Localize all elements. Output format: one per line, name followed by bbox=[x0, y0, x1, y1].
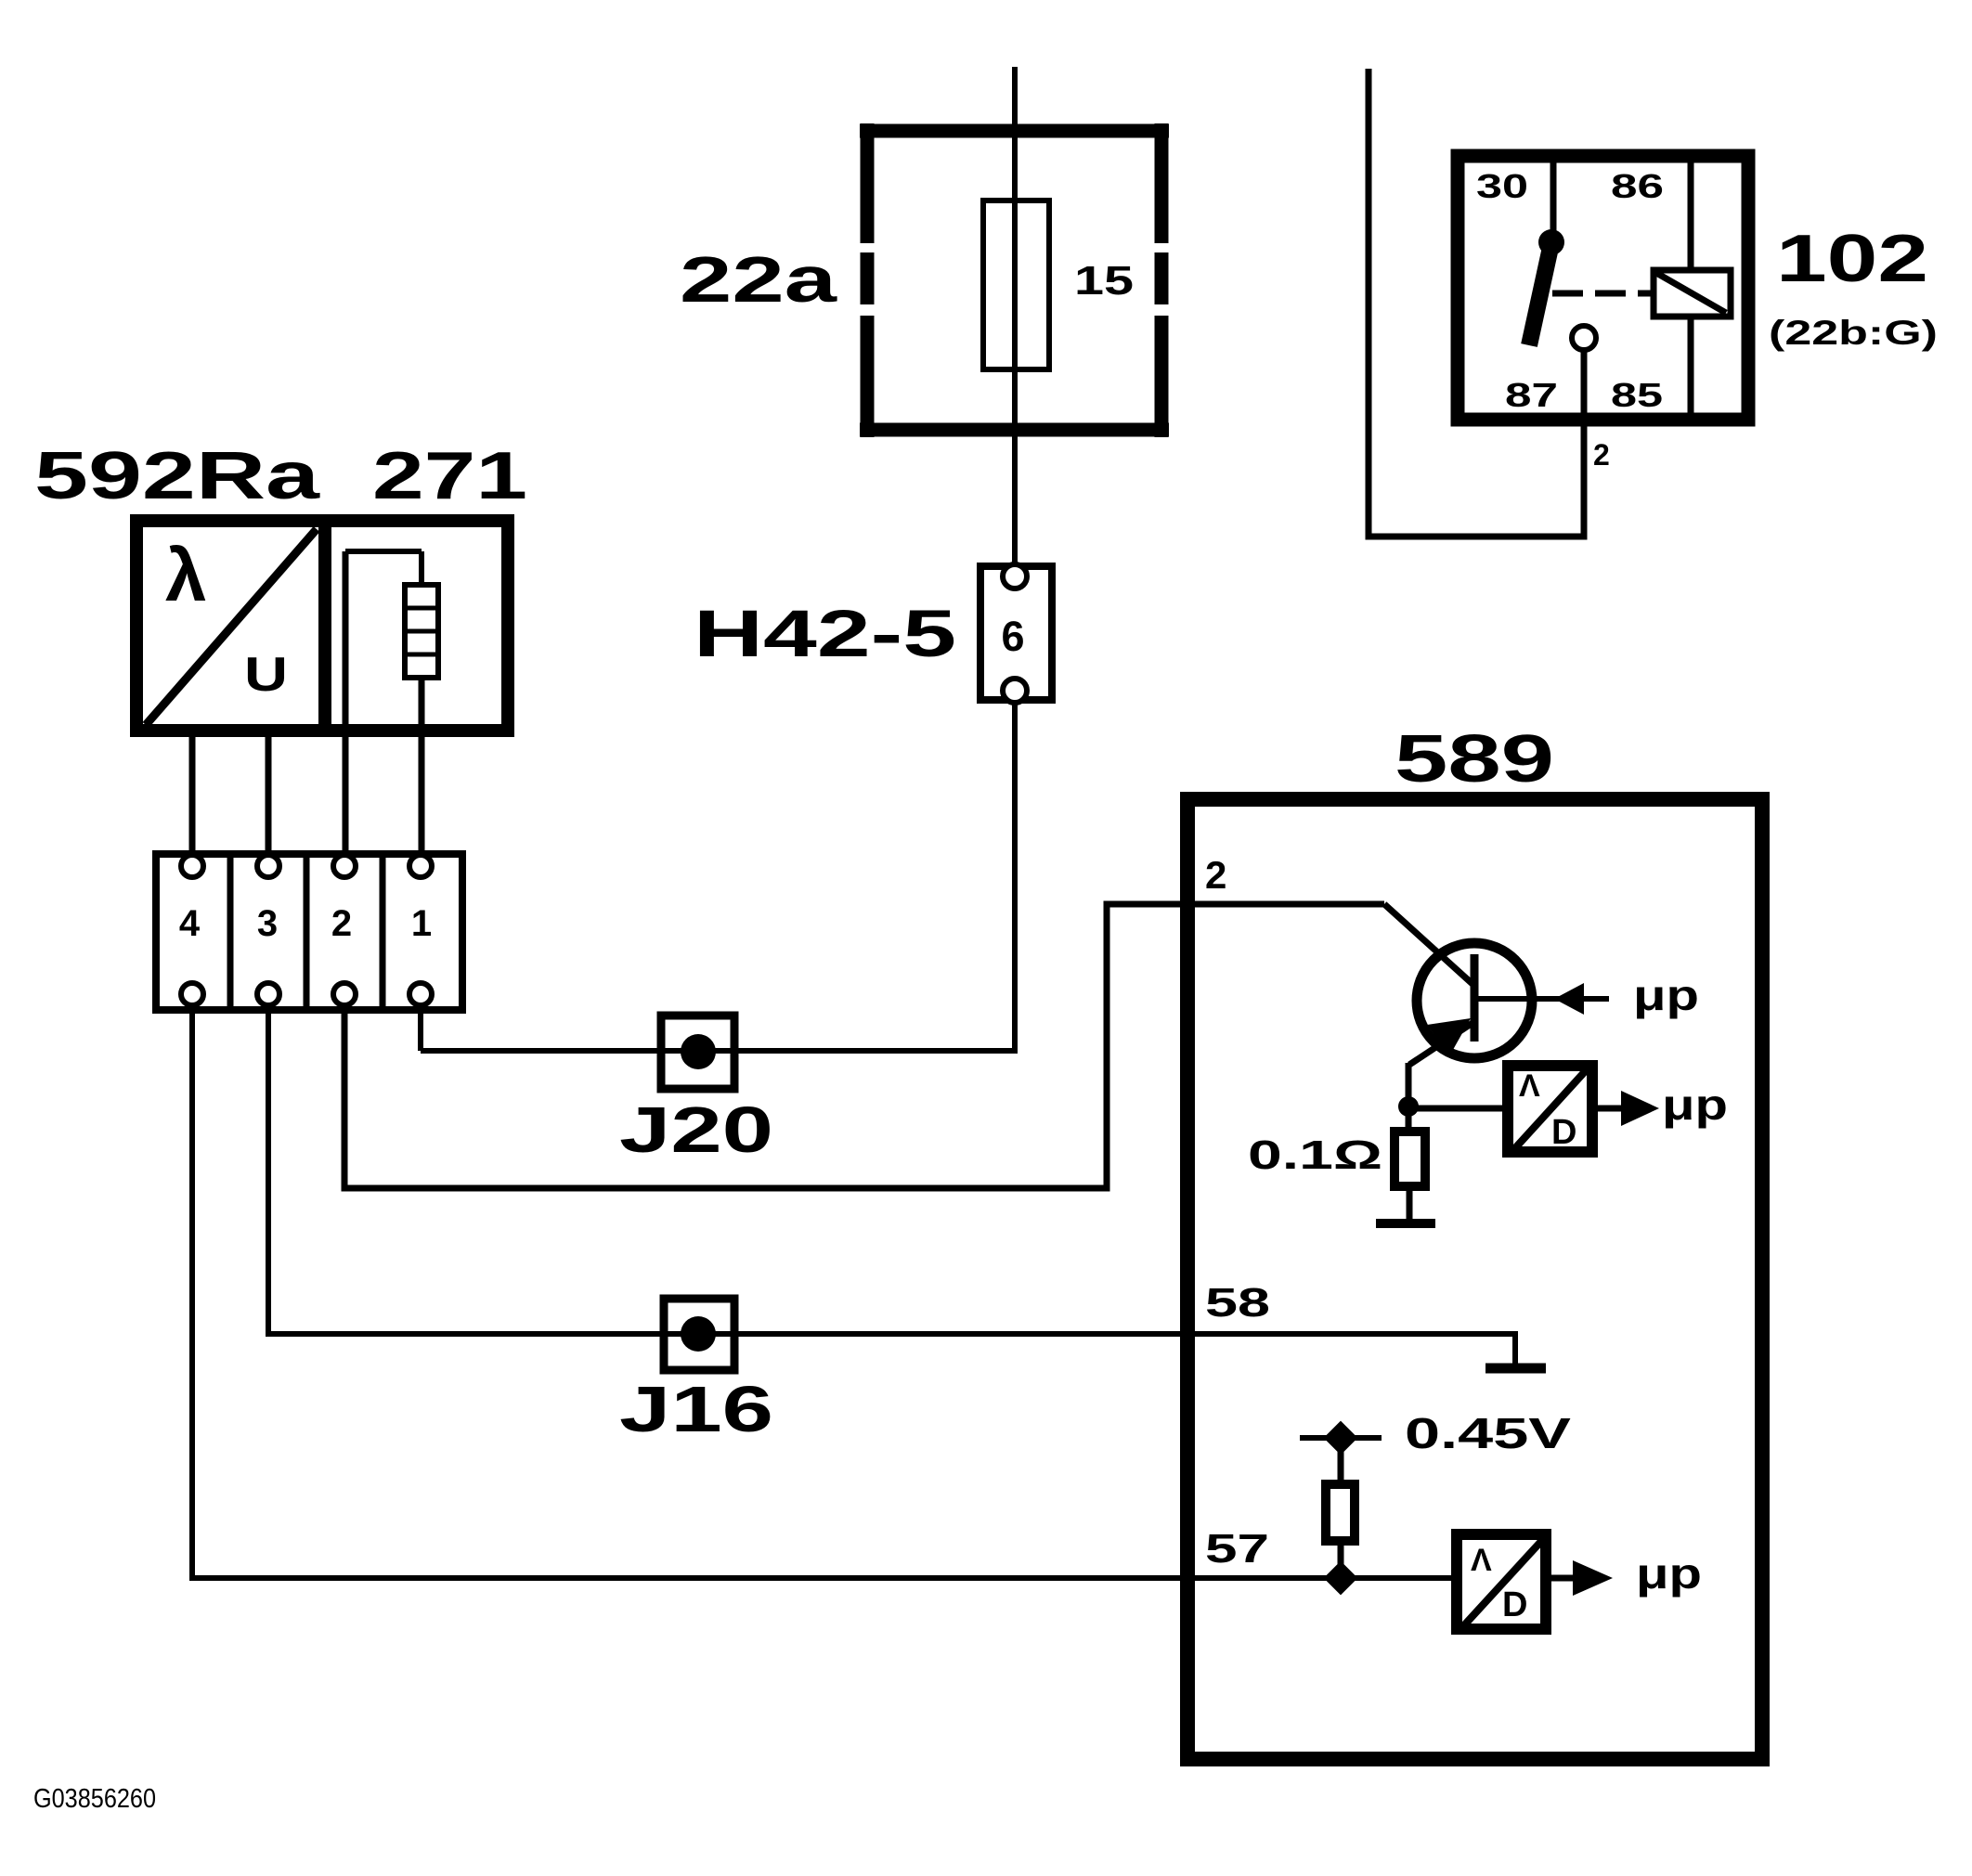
A/D output arrow to uP bbox=[1598, 1106, 1629, 1112]
svg-text:μp: μp bbox=[1662, 1080, 1728, 1129]
svg-text:22a: 22a bbox=[680, 243, 838, 316]
sensor leads to connector pins 4 and 3 bbox=[189, 731, 196, 857]
node (pin 57 / bias junction) bbox=[1324, 1561, 1358, 1596]
svg-text:2: 2 bbox=[1593, 438, 1610, 472]
svg-text:Λ: Λ bbox=[1519, 1068, 1540, 1104]
svg-text:271: 271 bbox=[372, 439, 527, 513]
relay coil bbox=[1654, 270, 1731, 317]
relay 102 feed wire (left riser, bottom run, pin 2 stub) bbox=[1369, 69, 1584, 537]
divider bbox=[318, 521, 331, 731]
svg-text:85: 85 bbox=[1611, 376, 1663, 414]
wire pin2 to ECU pin 2 bbox=[344, 904, 1384, 1188]
4-way connector block bbox=[156, 854, 462, 1010]
bias resistor bbox=[1338, 1438, 1344, 1484]
emitter with arrow bbox=[1409, 1023, 1473, 1065]
A/D 2 output arrow to uP bbox=[1551, 1575, 1578, 1582]
svg-text:G03856260: G03856260 bbox=[33, 1784, 156, 1814]
collector line with arrow from uP bbox=[1478, 996, 1609, 1002]
connector pin circles bottom bbox=[181, 983, 203, 1005]
relay coil leads (pin 86 / 85) bbox=[1688, 162, 1694, 270]
svg-text:J20: J20 bbox=[619, 1093, 773, 1166]
heater loop in 271 cell bbox=[345, 549, 422, 554]
svg-text:D: D bbox=[1551, 1113, 1576, 1152]
svg-text:μp: μp bbox=[1636, 1549, 1702, 1598]
node (emitter / shunt junction) bbox=[1398, 1096, 1419, 1117]
svg-text:U: U bbox=[244, 648, 288, 702]
svg-text:6: 6 bbox=[1001, 613, 1024, 660]
svg-text:4: 4 bbox=[179, 903, 201, 944]
svg-text:0.45V: 0.45V bbox=[1405, 1409, 1571, 1457]
oxygen sensor assembly 592Ra / 271 bbox=[136, 521, 508, 731]
svg-text:87: 87 bbox=[1505, 376, 1558, 414]
svg-text:2: 2 bbox=[331, 903, 352, 944]
relay switch arm bbox=[1538, 229, 1564, 255]
relay contact (pin 2) bbox=[1572, 326, 1596, 350]
wire H42-5 down to J20 run bbox=[421, 703, 1015, 1051]
A/D converter U1 bbox=[1508, 1066, 1592, 1152]
svg-text:D: D bbox=[1502, 1585, 1527, 1624]
svg-text:H42-5: H42-5 bbox=[694, 598, 956, 671]
ground (pin 58) bbox=[1485, 1364, 1546, 1374]
lambda/U sensor cell bbox=[146, 529, 317, 725]
transistor (heater driver) bbox=[1417, 943, 1532, 1058]
svg-text:(22b:G): (22b:G) bbox=[1769, 314, 1938, 352]
svg-text:15: 15 bbox=[1074, 258, 1134, 304]
splice J20 bbox=[661, 1016, 734, 1089]
wire from top supply down through fuse 22a to connector H42-5 bbox=[1012, 67, 1018, 565]
wire pin3 to J16 / ECU pin 58 bbox=[268, 1005, 1515, 1364]
wire pin2 diagonal to transistor base bbox=[1384, 904, 1473, 984]
connector H42-5 pin 6 bbox=[980, 564, 1052, 703]
fuse box 22a (dashed enclosure) bbox=[860, 123, 1169, 437]
svg-text:57: 57 bbox=[1205, 1526, 1269, 1572]
svg-text:58: 58 bbox=[1205, 1280, 1270, 1326]
ground (shunt) bbox=[1376, 1219, 1435, 1228]
svg-text:0.1Ω: 0.1Ω bbox=[1248, 1132, 1382, 1178]
ECU box 589 bbox=[1187, 799, 1762, 1759]
svg-text:μp: μp bbox=[1633, 971, 1699, 1019]
svg-text:Λ: Λ bbox=[1471, 1543, 1492, 1578]
fuse element 15 bbox=[983, 201, 1049, 369]
svg-text:3: 3 bbox=[257, 903, 278, 944]
heater resistor bbox=[405, 585, 438, 678]
svg-text:1: 1 bbox=[411, 903, 432, 944]
0.45V bias source bbox=[1300, 1435, 1382, 1441]
connector pin circles top bbox=[181, 855, 203, 877]
wire node to A/D converter bbox=[1408, 1106, 1508, 1112]
relay 102 box bbox=[1458, 156, 1748, 420]
shunt resistor 0.1 ohm bbox=[1406, 1106, 1412, 1132]
splice J16 bbox=[664, 1299, 734, 1370]
svg-text:592Ra: 592Ra bbox=[34, 439, 320, 513]
svg-text:λ: λ bbox=[165, 534, 207, 616]
svg-text:2: 2 bbox=[1205, 853, 1226, 897]
wire pin1 to J20 bbox=[418, 1005, 423, 1051]
svg-text:30: 30 bbox=[1476, 167, 1528, 205]
A/D converter U2 bbox=[1457, 1534, 1546, 1629]
wire pin4 to ECU pin 57 bbox=[192, 1005, 1451, 1578]
svg-text:86: 86 bbox=[1611, 167, 1664, 205]
relay pin 30 lead bbox=[1550, 162, 1557, 232]
svg-text:J16: J16 bbox=[619, 1373, 773, 1445]
svg-text:102: 102 bbox=[1776, 222, 1928, 296]
svg-text:589: 589 bbox=[1395, 722, 1554, 796]
relay actuating dashed link bbox=[1552, 291, 1654, 297]
